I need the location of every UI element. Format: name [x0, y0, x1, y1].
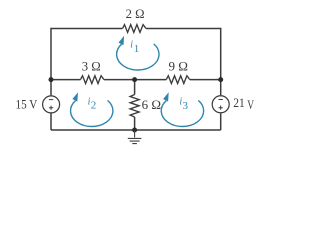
resistor R 2ohm zigzag — [123, 25, 147, 33]
wire: left rail upper — [50, 28, 52, 96]
wire: top rail — [51, 28, 221, 30]
mesh current arrow i2 — [71, 100, 113, 126]
svg-text:15 V: 15 V — [16, 97, 38, 112]
svg-text:i3: i3 — [179, 96, 188, 112]
wire: middle rail — [51, 79, 221, 81]
wire: middle vertical branch upper — [134, 80, 136, 95]
svg-text:21: 21 — [233, 95, 245, 110]
node junction dot left-mid — [49, 77, 54, 82]
svg-text:i2: i2 — [88, 96, 97, 111]
svg-text:9 Ω: 9 Ω — [168, 58, 188, 73]
svg-text:V: V — [247, 97, 254, 112]
node junction dot right-mid — [218, 77, 223, 82]
ground symbol — [128, 130, 142, 144]
mesh current arrow i1 — [117, 44, 159, 70]
svg-text:3 Ω: 3 Ω — [82, 58, 101, 73]
wire: bottom rail — [51, 129, 221, 131]
svg-text:i1: i1 — [130, 39, 139, 55]
wire: right rail lower — [220, 113, 222, 130]
node junction dot center-bottom — [132, 128, 137, 133]
node junction dot center-mid — [132, 77, 137, 82]
svg-text:6 Ω: 6 Ω — [142, 97, 162, 112]
voltage source V2 21V — [212, 96, 229, 113]
mesh current arrow i3 — [161, 100, 203, 126]
wire: left rail lower — [50, 113, 52, 130]
wire: right rail upper — [220, 28, 222, 96]
resistor R 3ohm zigzag — [81, 76, 105, 84]
voltage source V1 15V — [43, 96, 60, 113]
svg-text:2 Ω: 2 Ω — [126, 6, 145, 21]
wire: middle vertical branch lower — [134, 117, 136, 130]
resistor R 6ohm vertical zigzag — [130, 95, 139, 118]
resistor R 9ohm zigzag — [166, 76, 190, 84]
